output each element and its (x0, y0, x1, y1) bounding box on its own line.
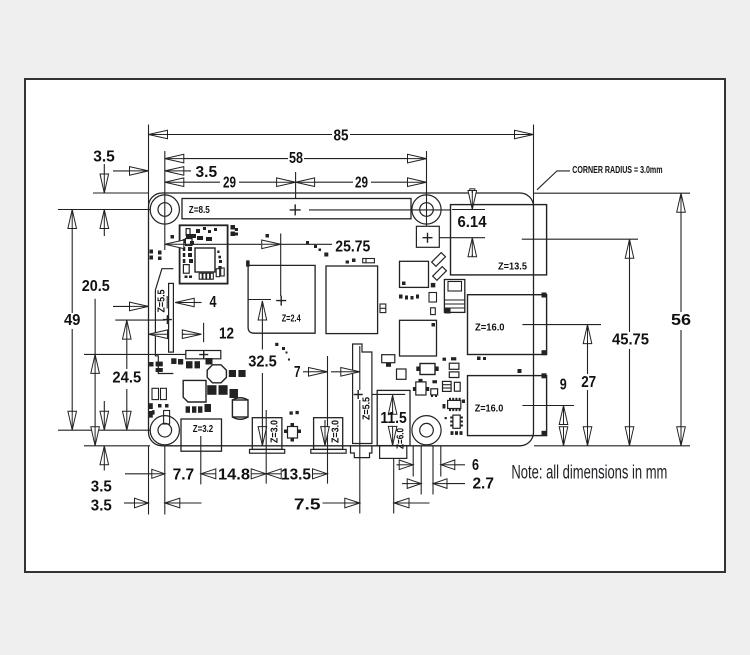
svg-text:7: 7 (294, 364, 301, 381)
svg-text:85: 85 (334, 127, 349, 144)
svg-text:Z=16.0: Z=16.0 (475, 322, 505, 333)
pads left board edge (150, 250, 154, 254)
board bottom edge extension left (84, 445, 150, 447)
svg-text:29: 29 (223, 174, 236, 191)
HDMI connector Z=3.0 (314, 418, 343, 450)
drawing sheet frame (25, 79, 725, 572)
svg-text:3.5: 3.5 (91, 478, 112, 495)
display-like part (382, 355, 395, 363)
PMIC chip (183, 380, 206, 402)
USB port 2 Z=16.0 (468, 376, 547, 436)
dimension 3.5 (left edge to hole, top) (130, 167, 149, 176)
PoE center mark (423, 233, 433, 243)
mounting hole top-right (412, 195, 441, 224)
audio jack center line (359, 346, 361, 390)
DSI center mark (163, 315, 172, 324)
board bottom edge extension right (534, 445, 690, 447)
WiFi module internal components (195, 248, 215, 272)
PCB board outline (149, 193, 534, 446)
mounting hole top-left (150, 195, 179, 224)
TL hole center extension left (58, 209, 151, 211)
mounting hole bottom-right (412, 416, 441, 445)
11.5 reference tick (372, 393, 406, 395)
extension line board left edge (85 dim) (148, 125, 150, 207)
center tick between 29 dims (295, 172, 297, 199)
dimension 4 (DSI width) (166, 296, 168, 309)
dimension 58 (hole spacing) (165, 154, 184, 163)
WiFi/BT module shield outline (180, 225, 228, 283)
extension line hole TR center vertical (426, 151, 428, 226)
svg-text:Z=3.2: Z=3.2 (193, 424, 214, 435)
ethernet center reference line (522, 238, 638, 240)
pad (171, 235, 175, 239)
svg-text:7.5: 7.5 (294, 497, 321, 514)
part right of RAM (380, 304, 386, 313)
svg-text:Z=3.0: Z=3.0 (269, 420, 280, 443)
svg-text:20.5: 20.5 (82, 278, 110, 295)
LAN chip (400, 261, 429, 287)
PMIC area small parts (156, 362, 163, 367)
dimension 49 (vertical hole spacing) (68, 210, 77, 229)
RAM chip (326, 266, 378, 334)
svg-text:29: 29 (355, 174, 368, 191)
svg-text:Z=13.5: Z=13.5 (498, 261, 527, 272)
svg-text:56: 56 (671, 312, 691, 329)
svg-text:58: 58 (289, 150, 303, 167)
dimension 25.75 (hole to CPU center) (165, 240, 184, 249)
svg-text:49: 49 (64, 312, 81, 329)
component bar with center mark (186, 351, 221, 359)
dimension 6 (399, 460, 413, 470)
small parts row above RAM (346, 261, 349, 264)
dimension 11.5 (388, 395, 397, 414)
display connector Z=3.2 (181, 419, 222, 451)
micro USB center ext line (265, 410, 267, 484)
svg-text:12: 12 (219, 326, 234, 343)
8 pin square IC (453, 415, 460, 428)
component with striped band (444, 280, 464, 313)
hole center line through GPIO to ethernet (309, 209, 451, 211)
svg-text:32.5: 32.5 (248, 354, 277, 371)
SOT23 (416, 382, 426, 395)
extension line hole TL center vertical (164, 151, 166, 250)
HDMI center ext line (327, 356, 329, 484)
board top edge extension left (93, 192, 149, 194)
extension line board right edge (85 dim) (533, 125, 535, 207)
svg-text:Z=5.5: Z=5.5 (362, 397, 373, 420)
electrolytic capacitor (232, 400, 248, 417)
svg-text:6.14: 6.14 (458, 214, 487, 231)
svg-text:25.75: 25.75 (335, 238, 370, 255)
hole diameter reference lines (412, 446, 414, 477)
dimension 32.5 (bottom edge to CPU center) (248, 299, 271, 301)
display connector center ext line (200, 436, 202, 484)
SOIC8 lower (448, 400, 461, 408)
board top edge extension right (534, 192, 690, 194)
mounting hole bottom-left (150, 416, 179, 445)
3-bar stack (443, 381, 452, 391)
BL hole center extension left (58, 429, 151, 431)
dimension 56 (677, 193, 686, 212)
DSI display flex connector Z=5.5 (155, 269, 173, 374)
svg-text:Note: all dimensions in mm: Note: all dimensions in mm (511, 463, 667, 484)
pads right of WiFi module (231, 225, 236, 230)
svg-text:CORNER RADIUS = 3.0mm: CORNER RADIUS = 3.0mm (572, 165, 662, 176)
audio jack Z=5.5 (353, 344, 372, 444)
svg-text:9: 9 (560, 377, 567, 394)
GPIO header center mark (290, 204, 301, 215)
small parts between microUSB and HDMI (290, 411, 293, 414)
svg-text:3.5: 3.5 (196, 164, 218, 181)
SOIC8 (397, 369, 407, 379)
GPIO header connector Z=8.5 (182, 199, 411, 219)
USB1 center reference line (522, 324, 601, 326)
dimension 6.14 (452, 209, 485, 211)
svg-text:2.7: 2.7 (472, 475, 494, 492)
svg-text:27: 27 (581, 374, 596, 391)
svg-text:Z=8.5: Z=8.5 (189, 205, 210, 216)
cap pair (449, 363, 459, 369)
dimension 85 (board width) (149, 130, 168, 139)
BL hole center ext down (164, 446, 166, 515)
camera center ext line (393, 459, 395, 514)
CPU BCM2837 Z=2.4 (248, 265, 315, 333)
USB2 center reference line (522, 405, 574, 407)
svg-text:Z=5.5: Z=5.5 (156, 289, 167, 312)
dimension 3.5 bottom horizontal (135, 498, 149, 508)
USB/LAN controller chip (400, 320, 437, 356)
svg-text:6: 6 (472, 457, 479, 474)
diagonal components (432, 253, 446, 267)
svg-text:45.75: 45.75 (612, 332, 649, 349)
dimension 13.5 (266, 469, 281, 479)
svg-text:Z=16.0: Z=16.0 (475, 404, 504, 415)
dimension 24.5 (123, 320, 132, 339)
dimension 27 (583, 325, 592, 344)
corner radius leader (537, 171, 570, 190)
reference line to component bar (84, 353, 186, 355)
board left edge ext down (148, 446, 150, 515)
svg-text:4: 4 (210, 294, 217, 311)
small legged part (431, 389, 438, 395)
small dots below CPU (275, 343, 278, 346)
audio jack center mark (354, 390, 363, 399)
CPU center mark (276, 296, 286, 306)
DSI connector center line (115, 319, 165, 321)
svg-text:7.7: 7.7 (173, 467, 195, 484)
svg-text:3.5: 3.5 (93, 149, 115, 166)
crystal with side pins (420, 364, 435, 375)
octagon inductor (207, 365, 226, 383)
svg-text:11.5: 11.5 (380, 410, 407, 427)
dimension 29 right (296, 178, 315, 187)
dimension 12 (149, 330, 168, 339)
dimension 29 left (165, 178, 184, 187)
svg-text:Z=3.0: Z=3.0 (331, 420, 342, 443)
svg-text:14.8: 14.8 (218, 467, 250, 484)
leader arrow to DSI area (130, 302, 149, 311)
svg-text:Z=6.0: Z=6.0 (395, 428, 406, 449)
CPU center vertical reference (280, 234, 282, 297)
dimension 2.7 (407, 479, 421, 489)
Ethernet jack Z=13.5 (451, 205, 547, 275)
PoE header outline (416, 226, 439, 247)
CSI camera connector Z=6.0 (377, 390, 410, 445)
USB port 1 Z=16.0 (468, 295, 547, 355)
svg-text:3.5: 3.5 (91, 497, 112, 514)
dimension 45.75 (625, 239, 634, 258)
svg-text:13.5: 13.5 (281, 467, 311, 484)
dimension 7.7 (152, 469, 165, 478)
svg-text:Z=2.4: Z=2.4 (282, 313, 301, 324)
micro USB power Z=3.0 (252, 418, 282, 450)
svg-text:24.5: 24.5 (112, 370, 141, 387)
dimension 3.5 bottom-left vertical (100, 411, 109, 430)
